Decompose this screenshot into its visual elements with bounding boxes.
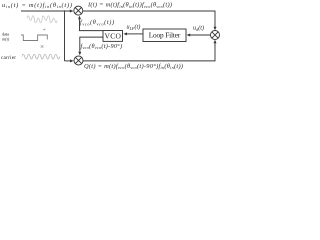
svg-text:*: * bbox=[43, 28, 46, 34]
svg-text:VCO: VCO bbox=[104, 32, 121, 41]
wire: Q(t) from M2 to M3 bbox=[83, 43, 215, 61]
waveform: data square wave bbox=[21, 35, 47, 41]
multiplier M1 (top) bbox=[74, 6, 83, 15]
waveform: BPSK modulated input signal bbox=[27, 16, 57, 23]
wire: branch vertical down bbox=[64, 11, 66, 61]
block: Loop Filter bbox=[143, 29, 186, 42]
svg-text:data: data bbox=[2, 31, 9, 36]
multiplier M2 (bottom) bbox=[74, 56, 83, 65]
svg-text:uin(t) = m(t)fin(θin(t)): uin(t) = m(t)fin(θin(t)) bbox=[2, 2, 72, 9]
node: input branch junction bbox=[64, 10, 66, 12]
multiplier M3 (right, phase detector) bbox=[211, 31, 220, 40]
svg-text:Loop Filter: Loop Filter bbox=[149, 31, 181, 40]
wire: u_LF(t) Loop Filter to VCO bbox=[127, 33, 143, 35]
svg-text:m(t): m(t) bbox=[2, 37, 10, 42]
svg-text:carrier: carrier bbox=[1, 55, 16, 61]
svg-text:×: × bbox=[40, 42, 44, 51]
svg-text:ud(t): ud(t) bbox=[193, 25, 204, 32]
wire: input horizontal into M1 bbox=[21, 10, 71, 12]
wire: I(t) from M1 to M3 bbox=[83, 11, 215, 28]
waveform: carrier sine bbox=[22, 54, 60, 59]
block: VCO bbox=[103, 31, 123, 42]
wire: VCO quadrature output to M2 bbox=[80, 37, 103, 52]
wire: VCO in-phase output to M1 bbox=[80, 19, 104, 30]
wire: bottom feed into M2 bbox=[65, 60, 71, 62]
wire: M3 output u_d(t) to Loop Filter bbox=[190, 34, 211, 36]
